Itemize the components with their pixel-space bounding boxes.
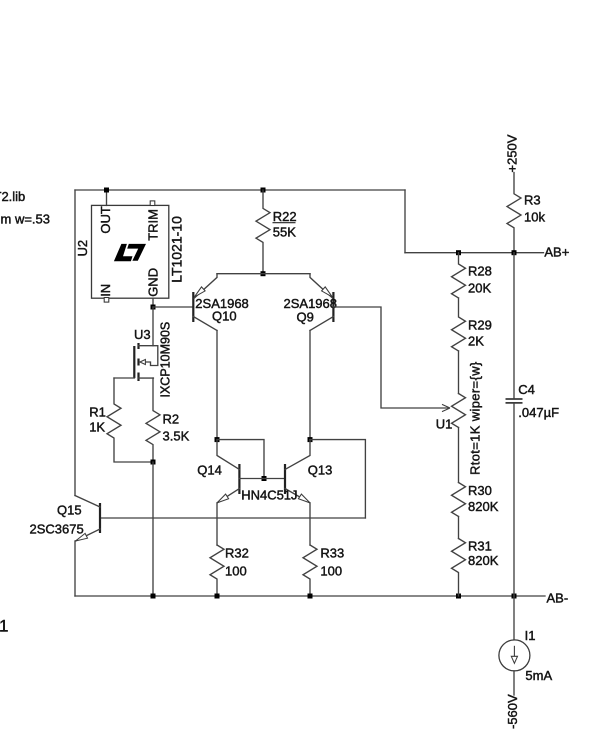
svg-text:HN4C51J: HN4C51J bbox=[241, 488, 297, 503]
wire Q9 base loop to U1 wiper bbox=[333, 307, 448, 408]
svg-text:1K: 1K bbox=[89, 420, 105, 435]
wire R29 to U1 bbox=[458, 351, 460, 394]
svg-text:GND: GND bbox=[146, 268, 161, 297]
junction bus at R2 bbox=[151, 594, 156, 599]
transistor Q15 2SC3675 bbox=[75, 496, 100, 597]
svg-text:IN: IN bbox=[98, 284, 113, 297]
svg-text:55K: 55K bbox=[273, 225, 296, 240]
junction GND node bbox=[151, 305, 156, 310]
wire R30 to R31 bbox=[458, 517, 460, 539]
svg-text:R30: R30 bbox=[468, 483, 492, 498]
wire AB- to I1 bbox=[513, 596, 515, 640]
svg-text:Q15: Q15 bbox=[57, 502, 82, 517]
resistor R3 bbox=[507, 173, 521, 253]
wire right drop from top bus to AB+ rail bbox=[404, 190, 406, 253]
wire GND node to U3 drain bbox=[152, 307, 154, 346]
resistor R30 bbox=[452, 483, 466, 517]
current source I1 bbox=[499, 640, 530, 671]
resistor R28 bbox=[452, 253, 466, 298]
U1 wiper arrowhead bbox=[442, 404, 450, 411]
svg-text:AB+: AB+ bbox=[544, 245, 569, 260]
svg-text:1: 1 bbox=[0, 617, 8, 636]
svg-text:LT1021-10: LT1021-10 bbox=[169, 216, 185, 283]
svg-text:OUT: OUT bbox=[98, 206, 113, 234]
svg-text:820K: 820K bbox=[468, 553, 499, 568]
svg-text:U2: U2 bbox=[75, 240, 90, 257]
wire R2 bottom to ground bus bbox=[152, 462, 154, 596]
resistor R33 bbox=[303, 545, 317, 596]
svg-text:2K: 2K bbox=[468, 334, 484, 349]
svg-text:820K: 820K bbox=[468, 499, 499, 514]
wire GND node to Q10 base bbox=[153, 306, 193, 308]
svg-text:10k: 10k bbox=[524, 210, 545, 225]
svg-text:R32: R32 bbox=[225, 545, 249, 560]
wire Q10 collector down bbox=[216, 331, 218, 440]
svg-text:R22: R22 bbox=[273, 209, 297, 224]
svg-text:C4: C4 bbox=[518, 382, 535, 397]
op-amp U2 LT1021-10 box bbox=[92, 205, 169, 298]
svg-text:+250V: +250V bbox=[504, 134, 519, 172]
junction top bus at U2 OUT bbox=[104, 188, 109, 193]
potentiometer U1 bbox=[452, 394, 466, 428]
svg-text:5mA: 5mA bbox=[525, 668, 552, 683]
svg-text:IXCP10M90S: IXCP10M90S bbox=[158, 322, 172, 398]
wire Q13 collector to Q15 base loop bbox=[310, 440, 365, 518]
svg-text:TRIM: TRIM bbox=[146, 209, 161, 241]
capacitor C4 bbox=[506, 399, 523, 403]
wire Q9 collector down bbox=[309, 331, 311, 440]
wire top bus bbox=[75, 189, 405, 191]
junction top bus at R22 bbox=[261, 188, 266, 193]
svg-text:R28: R28 bbox=[468, 264, 492, 279]
resistor R32 bbox=[210, 545, 224, 596]
transistor Q10 2SA1968 bbox=[193, 274, 217, 331]
wire U2 OUT pin to top bus bbox=[106, 190, 108, 205]
svg-text:3.5K: 3.5K bbox=[163, 429, 190, 444]
LT logo bbox=[114, 244, 146, 261]
U2 unconnected TRIM pin marker bbox=[150, 201, 155, 206]
wire Q14 collector to base bus (diode connection) bbox=[217, 440, 264, 479]
junction emitter bus at R22 bbox=[261, 271, 266, 276]
svg-text:R31: R31 bbox=[468, 539, 492, 554]
svg-text:AB-: AB- bbox=[547, 591, 569, 606]
junction bus at R32 bbox=[215, 594, 220, 599]
junction bus at R33 bbox=[308, 594, 313, 599]
wire AB+ rail bbox=[405, 252, 544, 254]
wire AB+ to C4 bbox=[513, 253, 515, 399]
junction AB+ at R3/C4 bbox=[512, 250, 517, 255]
svg-text:I1: I1 bbox=[525, 628, 536, 643]
wire emitter bus Q10-Q9 bbox=[217, 273, 310, 275]
svg-text:Q10: Q10 bbox=[212, 309, 237, 324]
junction Q9/Q13 collectors bbox=[308, 437, 313, 442]
junction bus at I1 bbox=[512, 594, 517, 599]
svg-text:R33: R33 bbox=[320, 545, 344, 560]
junction bus at R31 bbox=[456, 594, 461, 599]
svg-text:T2.lib: T2.lib bbox=[0, 189, 25, 204]
wire ground bus AB- rail bbox=[75, 595, 545, 597]
transistor U3 IXCP10M90S mosfet bbox=[134, 343, 158, 381]
svg-text:R29: R29 bbox=[468, 318, 492, 333]
svg-text:.047µF: .047µF bbox=[518, 405, 559, 420]
wire U3 gate to R1 bbox=[114, 377, 134, 379]
U2 unconnected IN pin marker bbox=[104, 298, 109, 303]
svg-text:U1: U1 bbox=[436, 417, 453, 432]
svg-text:m w=.53: m w=.53 bbox=[1, 212, 51, 227]
resistor R2 bbox=[146, 378, 160, 462]
resistor R29 bbox=[452, 298, 466, 351]
wire Q15 base bbox=[100, 517, 365, 519]
svg-text:R3: R3 bbox=[524, 193, 541, 208]
wire I1 to -560V bbox=[513, 671, 515, 695]
svg-text:Q13: Q13 bbox=[308, 463, 333, 478]
svg-text:-560V: -560V bbox=[505, 694, 520, 729]
wire Q14-Q13 base bus bbox=[239, 478, 285, 480]
transistor Q13 bbox=[285, 440, 310, 545]
resistor R22 bbox=[256, 190, 270, 274]
wire U2 GND pin to GND node bbox=[152, 298, 154, 307]
svg-text:R2: R2 bbox=[163, 412, 180, 427]
junction AB+ at R28 bbox=[456, 250, 461, 255]
svg-text:Q9: Q9 bbox=[297, 310, 314, 325]
svg-text:U3: U3 bbox=[134, 327, 151, 342]
resistor R31 bbox=[452, 539, 466, 597]
svg-text:100: 100 bbox=[320, 563, 342, 578]
svg-text:20K: 20K bbox=[468, 281, 491, 296]
junction Q13/Q14 base bus bbox=[262, 476, 267, 481]
svg-text:Q14: Q14 bbox=[197, 463, 222, 478]
svg-text:Rtot=1K wiper={w}: Rtot=1K wiper={w} bbox=[467, 361, 482, 475]
wire U1 to R30 bbox=[458, 428, 460, 483]
transistor Q14 bbox=[217, 440, 239, 545]
junction R1-R2 bottom bbox=[151, 460, 156, 465]
transistor Q9 2SA1968 bbox=[310, 274, 333, 331]
svg-text:2SC3675: 2SC3675 bbox=[30, 521, 84, 536]
wire left rail (Q15 collector to top bus) bbox=[74, 190, 76, 496]
svg-text:100: 100 bbox=[225, 563, 247, 578]
wire C4 to AB- rail bbox=[513, 404, 515, 596]
svg-text:R1: R1 bbox=[89, 405, 106, 420]
resistor R1 bbox=[107, 378, 153, 462]
junction Q10/Q14 collectors bbox=[215, 437, 220, 442]
